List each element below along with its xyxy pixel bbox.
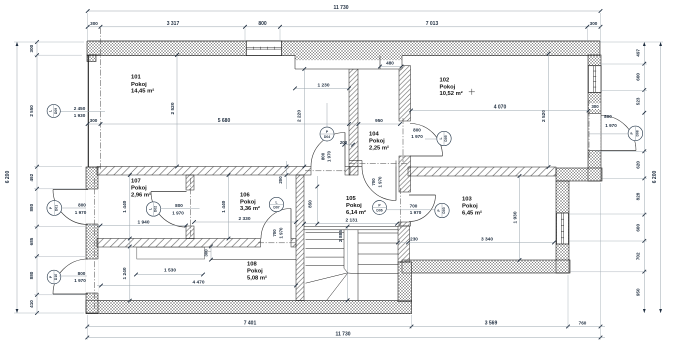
- svg-text:497: 497: [635, 49, 640, 57]
- svg-text:1 930: 1 930: [512, 211, 518, 223]
- svg-text:800: 800: [604, 114, 612, 119]
- svg-text:523: 523: [635, 97, 640, 105]
- svg-text:2 550: 2 550: [29, 105, 34, 117]
- svg-text:Pokoj: Pokoj: [462, 204, 478, 210]
- svg-text:6 200: 6 200: [5, 171, 11, 184]
- svg-text:1 970: 1 970: [605, 123, 617, 128]
- svg-text:4 070: 4 070: [494, 105, 507, 111]
- svg-text:D08: D08: [636, 130, 640, 136]
- svg-text:7 013: 7 013: [426, 21, 439, 27]
- svg-text:D09: D09: [54, 108, 58, 114]
- svg-text:800: 800: [78, 202, 86, 207]
- svg-text:492: 492: [29, 173, 34, 181]
- svg-text:950: 950: [635, 288, 640, 296]
- svg-text:600: 600: [635, 73, 640, 81]
- svg-text:850: 850: [308, 200, 313, 208]
- svg-text:1 240: 1 240: [122, 267, 128, 279]
- svg-text:5,08 m²: 5,08 m²: [247, 274, 267, 281]
- svg-text:D07: D07: [273, 206, 279, 210]
- svg-text:L: L: [439, 137, 443, 139]
- svg-text:4 470: 4 470: [192, 279, 204, 285]
- svg-text:600: 600: [635, 224, 640, 232]
- svg-text:Pokoj: Pokoj: [346, 203, 362, 209]
- svg-text:103: 103: [462, 197, 472, 203]
- svg-text:102: 102: [440, 77, 450, 83]
- svg-text:300: 300: [590, 21, 598, 26]
- svg-text:D01: D01: [55, 205, 59, 211]
- svg-text:2,25 m²: 2,25 m²: [369, 144, 389, 151]
- svg-text:3,36 m²: 3,36 m²: [240, 205, 260, 212]
- svg-text:Pokoj: Pokoj: [240, 200, 256, 206]
- svg-text:2 450: 2 450: [74, 106, 86, 111]
- svg-text:2,96 m²: 2,96 m²: [131, 191, 151, 198]
- svg-text:Pokoj: Pokoj: [247, 269, 263, 275]
- svg-text:685: 685: [29, 237, 34, 245]
- svg-text:1 970: 1 970: [74, 278, 86, 283]
- svg-text:620: 620: [635, 161, 640, 169]
- svg-text:880: 880: [29, 203, 34, 211]
- svg-text:D05: D05: [444, 135, 448, 141]
- svg-text:107: 107: [131, 179, 141, 185]
- svg-text:Pokoj: Pokoj: [131, 82, 147, 88]
- svg-text:6,14 m²: 6,14 m²: [346, 209, 366, 216]
- svg-text:108: 108: [247, 262, 257, 268]
- svg-text:Pokoj: Pokoj: [440, 85, 456, 91]
- svg-text:1 970: 1 970: [75, 210, 87, 215]
- svg-text:2 885: 2 885: [338, 230, 344, 242]
- svg-text:2 520: 2 520: [541, 110, 547, 122]
- svg-text:828: 828: [635, 192, 640, 200]
- svg-text:702: 702: [635, 252, 640, 260]
- svg-text:101: 101: [131, 75, 141, 81]
- svg-text:1 930: 1 930: [74, 113, 86, 118]
- svg-text:1 940: 1 940: [137, 219, 149, 225]
- svg-text:11 730: 11 730: [333, 5, 348, 11]
- svg-text:300: 300: [204, 249, 209, 257]
- svg-text:2 330: 2 330: [238, 216, 250, 222]
- svg-text:2 520: 2 520: [170, 102, 176, 114]
- svg-text:14,45 m²: 14,45 m²: [131, 87, 154, 94]
- svg-text:1 440: 1 440: [221, 200, 227, 212]
- svg-text:480: 480: [386, 60, 394, 65]
- svg-text:6 200: 6 200: [652, 171, 658, 184]
- svg-text:1 970: 1 970: [377, 176, 382, 188]
- svg-text:D06: D06: [376, 209, 382, 213]
- svg-text:3 569: 3 569: [485, 321, 498, 327]
- svg-text:700: 700: [371, 178, 376, 186]
- svg-text:1 970: 1 970: [410, 210, 422, 215]
- svg-text:2 220: 2 220: [297, 110, 303, 122]
- svg-text:950: 950: [375, 118, 383, 123]
- svg-text:Pokoj: Pokoj: [369, 139, 385, 145]
- svg-text:300: 300: [591, 104, 599, 109]
- svg-text:104: 104: [369, 132, 379, 138]
- svg-text:11 730: 11 730: [335, 332, 350, 338]
- svg-text:1 970: 1 970: [172, 210, 184, 215]
- svg-text:760: 760: [579, 321, 587, 326]
- svg-text:700: 700: [272, 229, 277, 237]
- svg-text:Pokoj: Pokoj: [131, 186, 147, 192]
- svg-text:L: L: [148, 208, 152, 210]
- svg-text:D10: D10: [54, 274, 58, 280]
- svg-text:D02: D02: [154, 206, 158, 212]
- svg-text:106: 106: [240, 192, 250, 198]
- svg-text:L: L: [275, 200, 277, 204]
- svg-text:300: 300: [90, 118, 98, 123]
- svg-text:1 970: 1 970: [411, 134, 423, 139]
- svg-text:2 131: 2 131: [345, 218, 357, 224]
- svg-text:5 680: 5 680: [218, 118, 231, 124]
- svg-text:10,52 m²: 10,52 m²: [440, 90, 463, 97]
- svg-text:3 317: 3 317: [167, 21, 180, 27]
- svg-text:800: 800: [78, 271, 86, 276]
- svg-text:1 970: 1 970: [278, 227, 283, 239]
- svg-text:700: 700: [410, 204, 418, 209]
- svg-text:1 530: 1 530: [164, 268, 176, 274]
- svg-text:230: 230: [410, 237, 418, 242]
- svg-text:300: 300: [29, 44, 34, 52]
- svg-text:800: 800: [413, 127, 421, 132]
- svg-text:105: 105: [346, 196, 356, 202]
- svg-text:200: 200: [278, 176, 283, 184]
- svg-text:1 970: 1 970: [327, 150, 332, 162]
- svg-text:3 340: 3 340: [481, 237, 493, 243]
- svg-text:1 230: 1 230: [317, 82, 329, 88]
- svg-text:410: 410: [29, 300, 34, 308]
- svg-text:200: 200: [340, 140, 348, 145]
- svg-text:800: 800: [258, 21, 267, 27]
- svg-text:D04: D04: [324, 135, 330, 139]
- svg-text:6,45 m²: 6,45 m²: [462, 209, 482, 216]
- svg-text:800: 800: [321, 152, 326, 160]
- svg-text:L: L: [49, 110, 53, 112]
- svg-text:300: 300: [90, 21, 98, 26]
- svg-text:D03: D03: [442, 207, 446, 213]
- svg-text:7 401: 7 401: [244, 321, 257, 327]
- svg-text:800: 800: [175, 203, 183, 208]
- svg-text:1 440: 1 440: [122, 200, 128, 212]
- svg-text:880: 880: [29, 271, 34, 279]
